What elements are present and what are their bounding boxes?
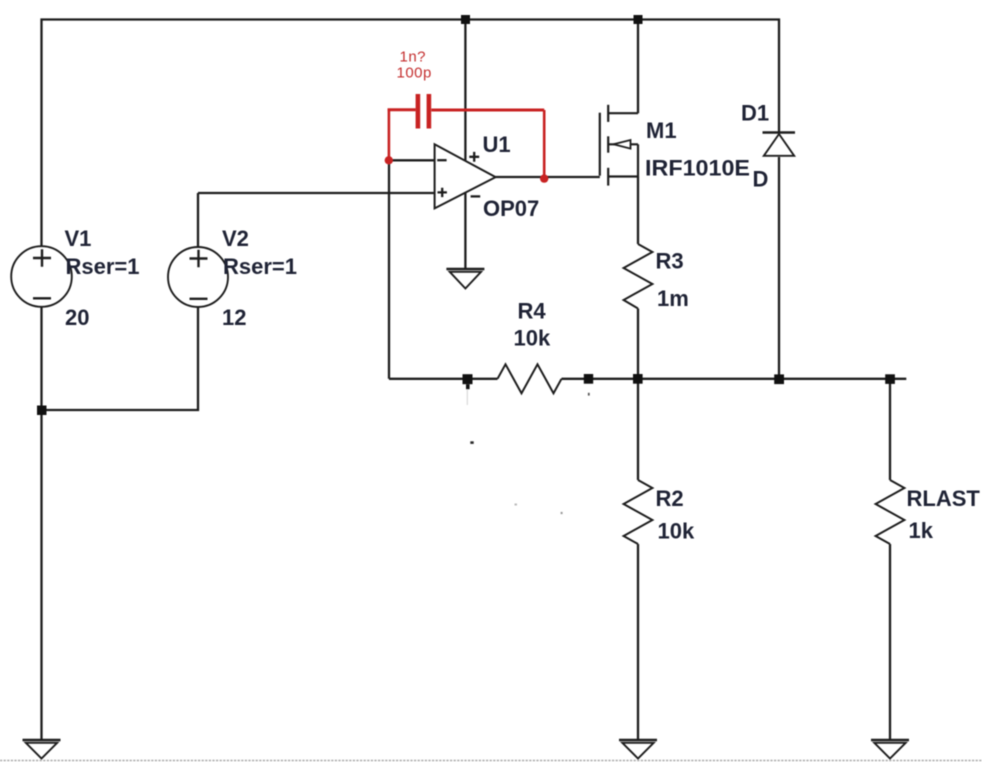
- svg-text:IRF1010E: IRF1010E: [645, 156, 750, 181]
- svg-text:OP07: OP07: [483, 196, 539, 221]
- svg-text:Rser=1: Rser=1: [223, 254, 297, 279]
- svg-text:1k: 1k: [909, 518, 934, 543]
- svg-text:12: 12: [222, 305, 246, 330]
- svg-text:10k: 10k: [514, 326, 551, 351]
- svg-text:Rser=1: Rser=1: [66, 254, 140, 279]
- svg-text:M1: M1: [646, 118, 677, 143]
- svg-text:20: 20: [65, 305, 89, 330]
- svg-text:V1: V1: [65, 226, 92, 251]
- svg-text:V2: V2: [222, 226, 249, 251]
- svg-text:U1: U1: [483, 132, 511, 157]
- svg-text:1m: 1m: [657, 286, 689, 311]
- svg-text:D1: D1: [741, 101, 769, 126]
- svg-text:100p: 100p: [397, 65, 432, 82]
- svg-text:RLAST: RLAST: [907, 486, 981, 511]
- svg-text:R4: R4: [518, 299, 547, 324]
- svg-text:10k: 10k: [658, 519, 695, 544]
- svg-text:D: D: [753, 167, 769, 192]
- svg-text:1n?: 1n?: [400, 49, 427, 66]
- svg-text:R2: R2: [656, 486, 684, 511]
- svg-text:R3: R3: [656, 249, 684, 274]
